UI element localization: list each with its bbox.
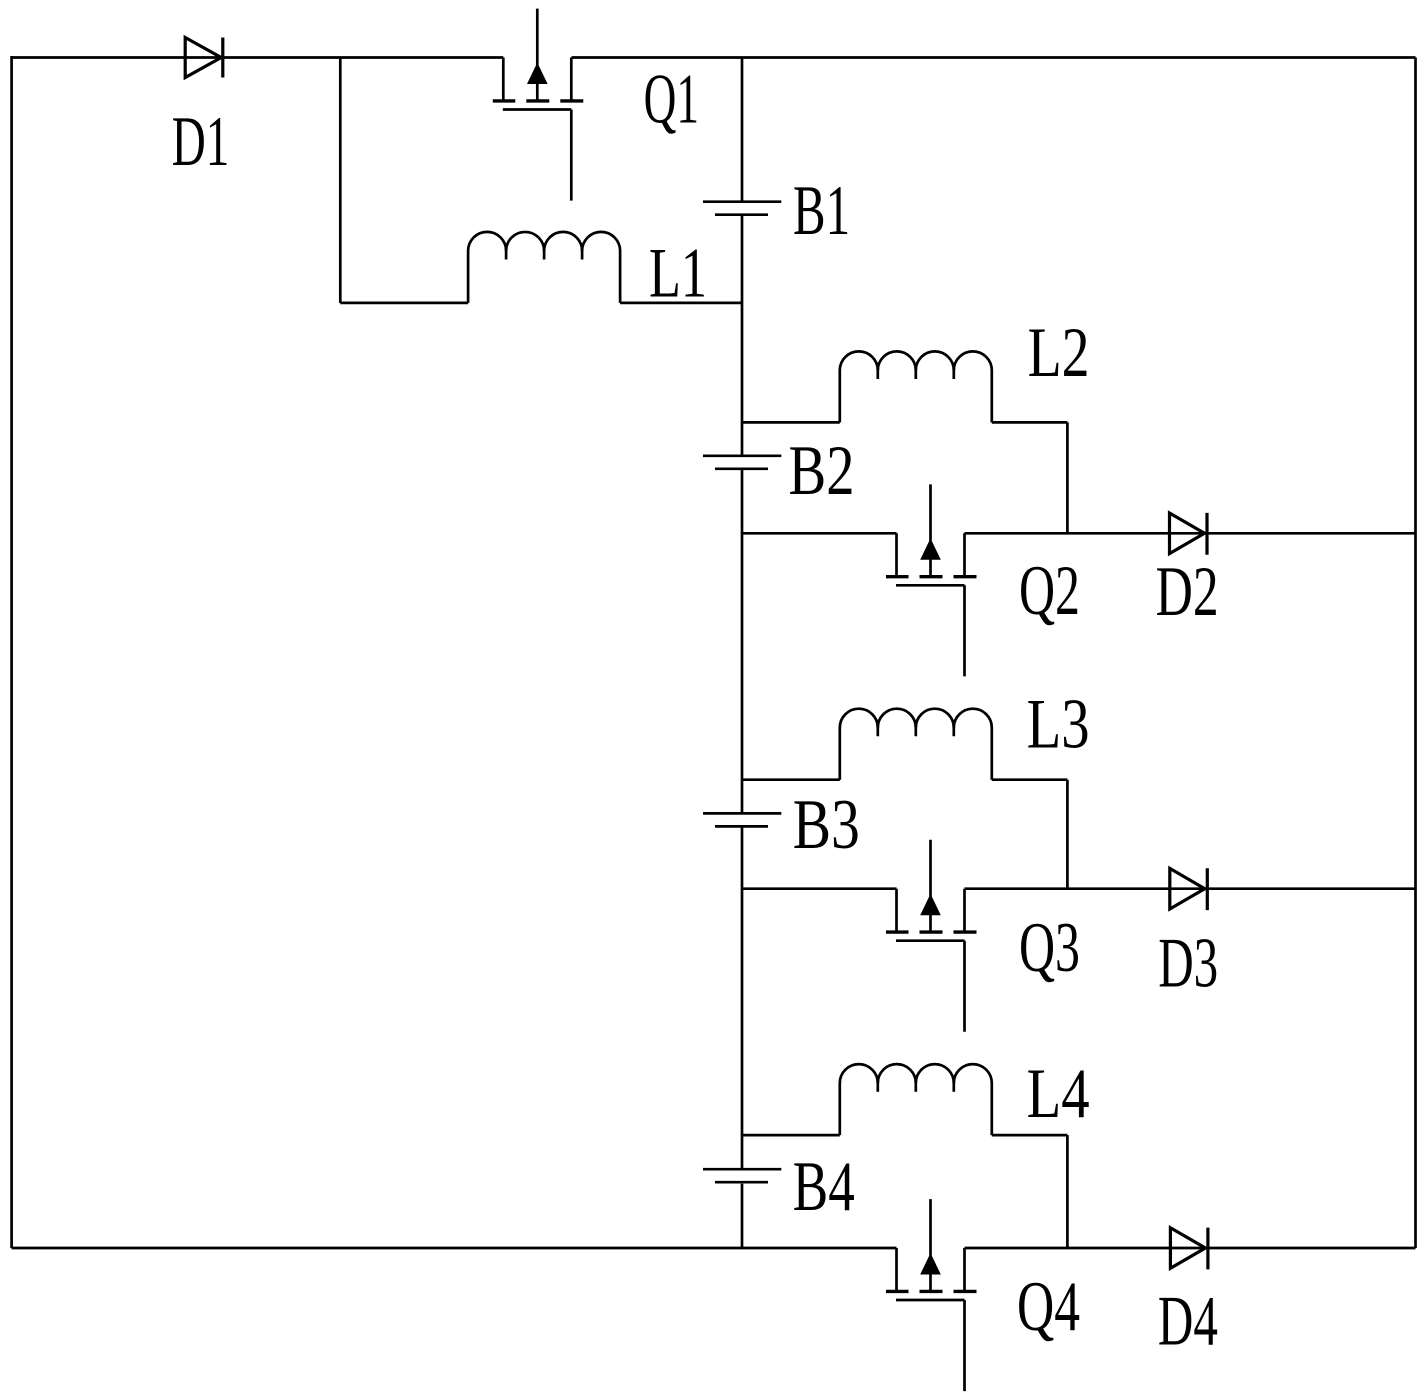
- svg-text:L1: L1: [649, 234, 707, 312]
- svg-text:L2: L2: [1028, 314, 1090, 392]
- svg-text:D4: D4: [1158, 1283, 1218, 1361]
- svg-text:L4: L4: [1027, 1055, 1090, 1133]
- svg-text:D1: D1: [172, 103, 230, 181]
- svg-text:B4: B4: [793, 1148, 855, 1226]
- svg-text:B2: B2: [789, 432, 855, 510]
- svg-text:B1: B1: [793, 172, 850, 250]
- svg-text:L3: L3: [1027, 686, 1090, 764]
- svg-text:B3: B3: [793, 786, 860, 864]
- svg-text:Q1: Q1: [644, 60, 699, 138]
- svg-text:Q4: Q4: [1017, 1268, 1080, 1346]
- svg-text:Q3: Q3: [1019, 909, 1080, 987]
- svg-text:Q2: Q2: [1019, 552, 1080, 630]
- svg-text:D2: D2: [1156, 553, 1219, 631]
- svg-text:D3: D3: [1158, 925, 1218, 1003]
